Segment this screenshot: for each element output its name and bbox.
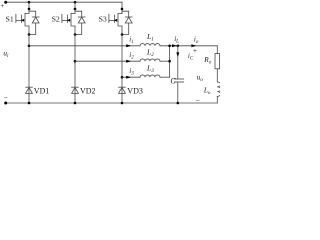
node phase3 tap (121, 76, 124, 79)
diode S2 antiparallel triangle (78, 17, 85, 23)
transistor S1 (25, 13, 29, 26)
svg-text:−: − (3, 93, 7, 102)
node S2 split junction (74, 8, 77, 11)
wire capacitor stem lower (177, 82, 179, 103)
node bus line2 junction (168, 60, 171, 63)
wire capacitor stem upper (177, 46, 179, 79)
svg-text:uo: uo (197, 73, 204, 83)
transistor S3 gate bar (114, 15, 116, 23)
wire S2 gate lead (62, 19, 68, 21)
inductor L2 coil (140, 59, 160, 61)
svg-text:Ro: Ro (203, 56, 211, 66)
wire Ro to Lo (216, 69, 218, 82)
node VD2 rail junction (74, 102, 77, 105)
diode VD1 cathode bar (26, 86, 33, 88)
wire phase line (75, 60, 140, 62)
diode S1 antiparallel cathode bar (32, 16, 39, 18)
transistor S1 gate terminal bar (15, 14, 17, 22)
node phase1 tap (28, 45, 31, 48)
node S1 split junction (28, 8, 31, 11)
node S3 split junction (121, 8, 124, 11)
inductor L3 coil (140, 75, 160, 77)
diode VD1 triangle (26, 87, 33, 93)
transistor S2 gate terminal bar (61, 14, 63, 22)
wire S2 source lead (74, 26, 76, 35)
node capacitor rail junction (177, 102, 180, 105)
inductor L1 coil (140, 44, 160, 46)
wire phase line (122, 76, 140, 78)
node input positive terminal (4, 1, 7, 4)
svg-text:VD2: VD2 (80, 87, 96, 96)
svg-text:−: − (196, 96, 200, 105)
wire L2 to bus (160, 60, 170, 62)
svg-text:S2: S2 (52, 15, 60, 24)
svg-text:i1: i1 (129, 35, 133, 45)
wire L3 to bus (160, 76, 170, 78)
wire S1 drain stub (28, 2, 30, 13)
diode S3 antiparallel cathode bar (125, 16, 132, 18)
diode S2 antiparallel cathode bar (78, 16, 85, 18)
transistor S3 (118, 13, 122, 26)
wire S3 diode branch (122, 11, 129, 17)
node input negative terminal (4, 102, 7, 105)
capacitor C top plate (174, 78, 183, 80)
switch S2 cell (62, 1, 85, 36)
node S1 source join (28, 33, 31, 36)
wire L1 to output (160, 45, 217, 47)
node S2 rail junction (74, 1, 77, 4)
svg-text:S3: S3 (99, 15, 107, 24)
svg-text:L3: L3 (146, 63, 154, 74)
current arrow i3 (126, 76, 131, 79)
current arrow io (191, 44, 196, 47)
current arrow i2 (126, 60, 131, 63)
transistor S1 body arrow (21, 19, 24, 22)
current arrow iL (172, 44, 177, 47)
current arrow i1 (126, 44, 131, 47)
wire summing bus (169, 46, 171, 77)
svg-text:i3: i3 (129, 67, 134, 77)
svg-text:C: C (170, 77, 176, 86)
wire S3 source lead (121, 26, 123, 35)
diode VD2 cathode bar (72, 86, 79, 88)
capacitor C bottom plate (174, 81, 183, 83)
svg-text:L1: L1 (146, 32, 154, 43)
svg-text:VD1: VD1 (34, 87, 50, 96)
wire S2 diode branch (75, 11, 82, 17)
switch S1 cell (16, 1, 39, 36)
svg-text:VD3: VD3 (127, 87, 143, 96)
svg-text:+: + (193, 46, 198, 55)
node phase2 tap (74, 60, 77, 63)
transistor S1 gate bar (21, 15, 23, 23)
wire S1 source lead (28, 26, 30, 35)
switch S3 cell (109, 2, 132, 36)
node bus line1 junction (168, 45, 171, 48)
node S1 rail junction (28, 1, 31, 4)
diode S3 antiparallel triangle (125, 17, 132, 23)
svg-text:iL: iL (174, 35, 179, 45)
node S3 source join (121, 33, 124, 36)
transistor S3 gate terminal bar (108, 14, 110, 22)
diode S1 antiparallel triangle (32, 17, 39, 23)
wire S1 gate lead (16, 19, 22, 21)
wire S2 leg vertical (74, 35, 76, 104)
svg-text:L2: L2 (146, 47, 154, 58)
wire S3 leg vertical (121, 35, 123, 104)
node VD1 rail junction (28, 102, 31, 105)
wire S1 diode return (29, 23, 36, 35)
wire top rail (6, 1, 123, 3)
inductor Lo coil (217, 82, 220, 96)
wire phase line (29, 45, 140, 47)
transistor S3 body arrow (114, 19, 117, 22)
resistor Ro box (215, 54, 220, 69)
transistor S2 gate bar (67, 15, 69, 23)
svg-text:i2: i2 (129, 51, 134, 61)
wire S2 drain stub (74, 2, 76, 13)
diode VD2 triangle (72, 87, 79, 93)
node VD3 rail junction (121, 102, 124, 105)
svg-text:S1: S1 (6, 15, 14, 24)
wire Lo to rail (216, 96, 218, 103)
wire S1 leg vertical (28, 35, 30, 104)
wire S3 drain stub (121, 2, 123, 13)
wire output top corner (216, 46, 218, 54)
node capacitor tap (177, 45, 180, 48)
wire S2 diode return (75, 23, 82, 35)
svg-text:io: io (194, 35, 199, 45)
wire S1 diode branch (29, 11, 36, 17)
wire S3 diode return (122, 23, 129, 35)
svg-text:ui: ui (3, 48, 9, 59)
diode VD3 triangle (119, 87, 126, 93)
wire S3 gate lead (109, 19, 115, 21)
wire bottom rail (6, 102, 218, 104)
node S2 source join (74, 33, 77, 36)
svg-text:+: + (0, 2, 4, 10)
transistor S2 (71, 13, 75, 26)
current arrow iC (176, 52, 179, 57)
svg-text:Lo: Lo (203, 86, 211, 96)
transistor S2 body arrow (67, 19, 70, 22)
diode VD3 cathode bar (119, 86, 126, 88)
